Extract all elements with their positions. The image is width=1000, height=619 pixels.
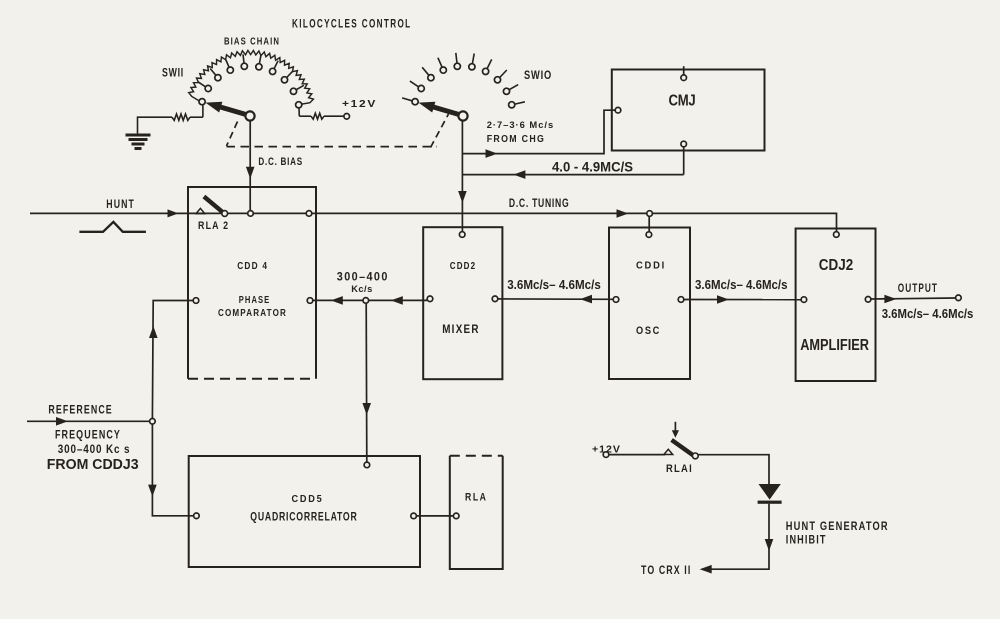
resistor R1 (bias chain to ground)	[172, 114, 190, 120]
arrow HUNT into CDD4	[168, 209, 179, 217]
svg-text:300–400 Kc s: 300–400 Kc s	[58, 444, 131, 456]
relay RLA1 arm end	[692, 453, 698, 459]
terminal CDD1 left	[613, 297, 619, 303]
diode D1 (hunt inhibit)	[759, 484, 781, 500]
SW11 contact 3	[210, 69, 216, 76]
wire 300-400 down to CDD5	[365, 303, 368, 462]
SW11 contact 10	[296, 102, 302, 108]
SW11 pivot	[245, 111, 254, 120]
terminal CDD2 top	[459, 232, 465, 238]
svg-text:3.6Mc/s– 4.6Mc/s: 3.6Mc/s– 4.6Mc/s	[507, 277, 601, 292]
svg-text:BIAS CHAIN: BIAS CHAIN	[224, 35, 280, 47]
box CMJ	[612, 70, 765, 151]
svg-text:REFERENCE: REFERENCE	[48, 403, 112, 417]
relay contact RLA2 arm	[204, 197, 223, 213]
svg-text:SWII: SWII	[162, 68, 184, 80]
terminal CMJ left	[615, 107, 621, 113]
resistor R2 (bias chain to +12V)	[311, 113, 324, 119]
terminal OUTPUT	[956, 295, 962, 301]
wire OUTPUT	[871, 298, 955, 299]
SW10 contact 3	[422, 67, 429, 75]
SW10 contact 1	[402, 98, 412, 101]
terminal CDD1 top	[646, 232, 652, 238]
terminal CDD5 left	[194, 513, 200, 519]
SW10 wiper arm	[433, 107, 459, 115]
dashed coupling link	[227, 146, 438, 148]
box CDD4 dashed bottom	[188, 378, 316, 380]
box CDD1	[609, 228, 690, 380]
svg-text:MIXER: MIXER	[442, 324, 480, 336]
arrow up into CDD4	[149, 326, 158, 338]
SW11 wiper arm	[220, 107, 246, 115]
wire 2.7-3.6 Mc/s to CMJ	[462, 110, 615, 153]
svg-text:FROM CDDJ3: FROM CDDJ3	[47, 457, 139, 473]
wire CDD1 to CDJ2	[684, 299, 801, 301]
terminal CDJ2 top	[834, 232, 840, 238]
relay RLA2 arm end	[222, 211, 228, 217]
wire CMJ bottom to 4.0-4.9 line	[683, 147, 685, 175]
svg-text:Kc/s: Kc/s	[351, 284, 373, 295]
SW11 contact 7	[274, 61, 278, 69]
wire resistor to ground corner	[138, 117, 173, 134]
box CDD4 (solid sides)	[188, 187, 316, 379]
junction D.C. tuning to CDD1	[647, 211, 653, 217]
svg-text:FREQUENCY: FREQUENCY	[55, 428, 121, 442]
svg-text:AMPLIFIER: AMPLIFIER	[800, 337, 869, 354]
SW10 contact 8	[500, 70, 507, 78]
arrow TO CRX11	[700, 565, 712, 574]
svg-text:CDJ2: CDJ2	[819, 257, 853, 274]
ground	[126, 134, 151, 137]
arrow D.C. TUNING	[617, 209, 629, 218]
wire diode down	[703, 504, 769, 569]
svg-text:+12V: +12V	[342, 98, 377, 110]
svg-text:4.0 - 4.9MC/S: 4.0 - 4.9MC/S	[552, 159, 633, 174]
wire REFERENCE input	[27, 420, 149, 422]
wire SW11 left contact down	[202, 105, 204, 117]
svg-text:D.C. TUNING: D.C. TUNING	[509, 196, 569, 210]
arrow OUTPUT	[884, 295, 896, 304]
svg-text:TO CRX II: TO CRX II	[641, 563, 691, 577]
terminal CDD4 right	[307, 298, 313, 304]
svg-text:RLAI: RLAI	[666, 463, 693, 475]
SW10 contact 6	[472, 54, 474, 64]
svg-text:3.6Mc/s– 4.6Mc/s: 3.6Mc/s– 4.6Mc/s	[695, 277, 788, 292]
terminal +12V (RLA1)	[603, 452, 609, 458]
CMJ top stub	[683, 66, 685, 75]
junction D.C. bias / hunt line	[248, 211, 254, 217]
terminal +12V (SW11)	[344, 114, 350, 120]
terminal CDD2 right	[492, 296, 498, 302]
svg-text:D.C. BIAS: D.C. BIAS	[258, 156, 303, 168]
wire SW10 wiper down to CDD2	[461, 121, 463, 232]
arrow D.C. BIAS	[246, 167, 255, 179]
wire +12V to RLA1	[609, 454, 665, 456]
SW10 pivot	[458, 111, 467, 120]
box RLA dashed top	[450, 455, 503, 457]
junction RLA2 output	[306, 211, 312, 217]
arrow 4.0-4.9 MC/S	[513, 170, 525, 179]
terminal CDJ2 left	[801, 297, 807, 303]
terminal CDD2 left	[427, 296, 433, 302]
SW11 contact 1	[199, 99, 205, 105]
wire reference up to CDD4	[152, 301, 193, 419]
svg-text:3.6Mc/s– 4.6Mc/s: 3.6Mc/s– 4.6Mc/s	[882, 306, 974, 321]
relay contact RLA2 fixed (triangle)	[196, 208, 205, 213]
dashed coupling SW11 wiper	[227, 122, 238, 147]
SW10 contact 10	[515, 102, 525, 104]
svg-text:INHIBIT: INHIBIT	[786, 533, 827, 547]
box CDD5	[189, 456, 420, 567]
wire to resistor	[190, 116, 203, 118]
terminal CDD5 right	[411, 513, 417, 519]
wire to resistor	[299, 115, 311, 117]
wire D.C. BIAS	[249, 121, 251, 211]
svg-text:QUADRICORRELATOR: QUADRICORRELATOR	[250, 511, 357, 523]
SW10 contact 9	[509, 85, 518, 90]
wire CDD2 to CDD4 (300-400 Kc/s)	[313, 299, 427, 301]
arrow into CDD2	[458, 191, 467, 203]
arrow into CDD2	[580, 295, 592, 304]
terminal CMJ top	[681, 75, 687, 81]
wire SW11 right contact down	[298, 108, 300, 116]
svg-text:PHASE: PHASE	[239, 294, 270, 306]
arrow down on inhibit wire	[765, 539, 774, 551]
svg-text:FROM CHG: FROM CHG	[487, 134, 546, 145]
arrow into CDD5	[362, 403, 371, 415]
hunt waveform symbol	[79, 222, 145, 232]
svg-text:RLA 2: RLA 2	[198, 220, 229, 232]
svg-text:2·7–3·6 Mc/s: 2·7–3·6 Mc/s	[487, 120, 555, 131]
wire CDD5 to RLA	[417, 515, 454, 517]
box CDJ2	[796, 229, 876, 382]
svg-text:300–400: 300–400	[337, 271, 389, 283]
svg-text:KILOCYCLES CONTROL: KILOCYCLES CONTROL	[292, 17, 412, 31]
terminal CDD4 left	[193, 298, 199, 304]
terminal RLA left	[453, 513, 459, 519]
relay contact RLA1 fixed (triangle)	[664, 449, 673, 454]
wire resistor to +12V terminal	[324, 115, 344, 117]
arrow 2.7-3.6 Mc/s	[486, 149, 498, 158]
svg-text:HUNT GENERATOR: HUNT GENERATOR	[786, 519, 889, 533]
SW10 contact 5	[456, 53, 457, 63]
arrow into CDJ2	[717, 295, 729, 304]
svg-text:COMPARATOR: COMPARATOR	[218, 307, 287, 319]
junction reference	[150, 419, 156, 425]
box CDD2	[423, 227, 502, 379]
wire 4.0-4.9 MC/S	[462, 174, 683, 176]
wire junction down to CDD1	[648, 216, 650, 231]
SW10 contact 7	[487, 59, 492, 68]
wire HUNT / D.C. TUNING main line	[30, 213, 837, 231]
SW11 contact 9	[296, 85, 304, 89]
wire RLA1 to diode	[698, 455, 769, 484]
relay contact RLA1 arm	[672, 440, 693, 455]
terminal CDD5 top	[364, 462, 370, 468]
SW11 contact 6	[259, 55, 261, 64]
terminal CDJ2 right	[865, 297, 871, 303]
box RLA (solid sides)	[450, 456, 503, 569]
RLA1 actuate arrow	[674, 422, 676, 432]
svg-text:CDDI: CDDI	[636, 260, 666, 272]
arrow down to CDD5	[148, 485, 157, 497]
arrow toward CDD4 second	[391, 296, 403, 305]
SW11 contact 4	[226, 59, 230, 67]
SW11 contact 2	[198, 82, 205, 87]
arrow REFERENCE	[56, 417, 68, 426]
dashed coupling SW10 wiper	[431, 114, 449, 148]
SW10 contact 4	[438, 58, 442, 67]
terminal CMJ bottom	[681, 141, 687, 147]
SW11 contact 8	[287, 71, 293, 77]
terminal CDD1 right	[678, 297, 684, 303]
svg-text:CDD 4: CDD 4	[237, 261, 268, 272]
wire CDD1 to CDD2	[498, 298, 613, 300]
svg-text:OSC: OSC	[636, 325, 661, 337]
junction 300-400 Kc/s	[363, 298, 369, 304]
svg-text:RLA: RLA	[465, 491, 488, 503]
svg-text:SWIO: SWIO	[524, 70, 552, 82]
svg-text:OUTPUT: OUTPUT	[898, 281, 938, 295]
svg-text:CMJ: CMJ	[669, 92, 696, 109]
bias chain resistor arc (SW11)	[189, 50, 314, 104]
svg-text:CDD2: CDD2	[450, 260, 476, 272]
svg-text:HUNT: HUNT	[106, 197, 135, 211]
arrow toward CDD4	[331, 296, 343, 305]
SW11 contact 5	[243, 54, 244, 63]
SW10 contact 2	[410, 81, 419, 87]
wire reference down to CDD5	[152, 424, 193, 516]
svg-text:CDD5: CDD5	[292, 493, 324, 505]
